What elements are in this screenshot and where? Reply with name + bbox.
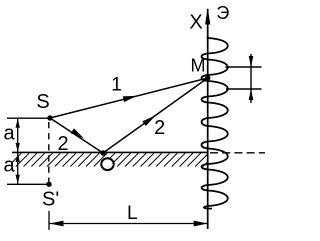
label O [101,158,113,170]
dim line a upper [17,118,19,152]
svg-text:L: L [127,203,138,224]
fringe ref line top [225,66,261,68]
svg-text:1: 1 [111,75,122,96]
dashed axis line right of screen [210,152,265,154]
screen line (ekran) [207,9,209,229]
svg-text:S: S [36,91,49,113]
point O dot [100,150,105,155]
image S' dot [46,182,51,187]
svg-text:2: 2 [57,133,68,155]
dim line L [49,223,208,225]
leader line at S' level [7,183,49,185]
svg-text:a: a [3,123,15,145]
node M dot [205,75,210,80]
screen axis arrow [205,8,210,25]
svg-text:a: a [3,155,15,177]
ray 1 S to M [50,78,208,118]
svg-text:M: M [191,56,206,76]
svg-text:Э: Э [216,3,229,23]
leader line at S level [7,117,50,119]
dim line a lower [17,152,19,184]
intensity wave curve [202,36,228,209]
mirror top surface [12,151,208,153]
svg-text:X: X [189,12,202,34]
mirror hatching [11,153,208,166]
svg-text:2: 2 [154,117,165,139]
svg-text:S': S' [42,189,59,211]
fringe spacing dim line [250,54,252,103]
source S dot [47,115,52,120]
ray 2 S to O [50,118,103,153]
ray 2 O to M [103,78,208,153]
fringe ref line bottom [226,88,262,90]
dashed line S to S' [48,122,50,182]
witness tick at S' vertical [48,211,50,230]
